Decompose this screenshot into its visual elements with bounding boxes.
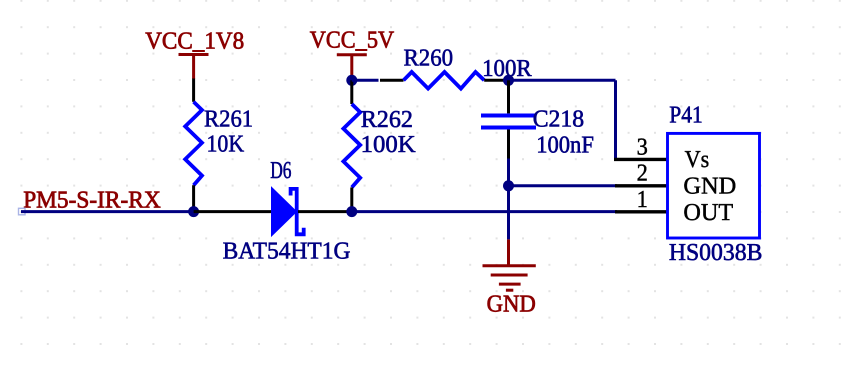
node junction A (net / R261 / D6 anode) bbox=[188, 206, 199, 217]
node junction D (R260 / C218 / wire to pin 3) bbox=[503, 75, 514, 86]
svg-text:PM5-S-IR-RX: PM5-S-IR-RX bbox=[23, 187, 161, 214]
svg-text:GND: GND bbox=[683, 172, 736, 199]
wire C218 bottom to junction bbox=[507, 159, 510, 186]
svg-text:10K: 10K bbox=[207, 131, 245, 158]
svg-text:OUT: OUT bbox=[683, 199, 733, 226]
resistor R261 bbox=[185, 79, 202, 212]
svg-text:R261: R261 bbox=[204, 105, 253, 132]
svg-text:R262: R262 bbox=[361, 106, 413, 133]
diode D6 (BAT54HT1G schottky) bbox=[271, 186, 304, 237]
capacitor C218 bbox=[481, 80, 536, 158]
wire D6 anode lead bbox=[194, 210, 271, 213]
ground GND symbol bbox=[483, 239, 536, 290]
node junction C (R262 / D6 cathode / OUT wire) bbox=[346, 206, 357, 217]
wire pin2 stub bbox=[615, 184, 667, 187]
wire top row to corner bbox=[509, 79, 616, 82]
svg-text:P41: P41 bbox=[669, 102, 703, 129]
power symbol VCC_5V bbox=[337, 55, 367, 81]
wire pin3 stub bbox=[614, 158, 667, 161]
svg-text:100K: 100K bbox=[361, 131, 417, 158]
resistor R260 bbox=[380, 72, 509, 89]
wire D6 cathode lead bbox=[298, 210, 352, 213]
svg-text:1: 1 bbox=[637, 186, 648, 213]
svg-text:BAT54HT1G: BAT54HT1G bbox=[223, 237, 351, 264]
net hotspot marker bbox=[19, 208, 26, 215]
wire VCC_5V to R260 bbox=[352, 79, 379, 82]
connector P41 box bbox=[668, 133, 760, 238]
svg-text:VCC_1V8: VCC_1V8 bbox=[145, 27, 244, 54]
svg-text:Vs: Vs bbox=[685, 146, 710, 173]
wire pin1 stub bbox=[615, 210, 667, 213]
node junction E (C218 / GND / pin 2) bbox=[503, 180, 514, 191]
node junction B (VCC_5V / R262 / R260) bbox=[346, 75, 357, 86]
svg-text:C218: C218 bbox=[533, 106, 584, 133]
svg-text:GND: GND bbox=[487, 290, 536, 317]
svg-text:2: 2 bbox=[637, 160, 648, 187]
svg-text:R260: R260 bbox=[404, 45, 454, 72]
power symbol VCC_1V8 bbox=[179, 55, 209, 80]
svg-text:HS0038B: HS0038B bbox=[669, 239, 763, 266]
wire junction E down toward ground bbox=[507, 186, 510, 240]
resistor R262 bbox=[343, 80, 360, 211]
wire OUT row (to pin 1) bbox=[352, 210, 617, 213]
wire pin2 row bbox=[509, 184, 618, 187]
wire net PM5-S-IR-RX horizontal bbox=[21, 210, 194, 213]
wire vertical corner down to pin 3 bbox=[614, 80, 617, 159]
svg-text:3: 3 bbox=[637, 133, 648, 160]
svg-text:D6: D6 bbox=[270, 157, 291, 184]
svg-text:100nF: 100nF bbox=[536, 131, 594, 158]
svg-text:VCC_5V: VCC_5V bbox=[310, 27, 395, 54]
